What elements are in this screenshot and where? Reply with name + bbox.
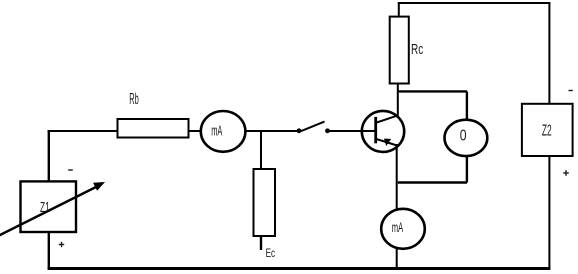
wire: ammeter to bottom rail — [396, 248, 398, 269]
svg-text:Rc: Rc — [411, 42, 423, 58]
switch S1 — [297, 122, 330, 134]
svg-text:Z2: Z2 — [542, 123, 552, 140]
wire: voltmeter loop right lower — [466, 155, 468, 183]
wire: bottom rail — [48, 267, 551, 270]
resistor Rc — [390, 17, 409, 84]
source Z1 (variable) — [21, 181, 77, 232]
wire: top rail — [398, 2, 551, 4]
wire: switch to transistor base — [329, 130, 376, 132]
wire: right side down to Z2 — [548, 3, 550, 104]
wire: Z2 down to bottom rail — [548, 156, 550, 269]
arrow through Z1 (variable symbol) — [0, 182, 105, 237]
label plus (Z1) — [59, 242, 64, 247]
label minus (Z1) — [68, 169, 73, 171]
load Z2 — [522, 104, 573, 156]
wire: voltmeter loop top — [398, 90, 467, 92]
voltmeter O — [445, 120, 488, 156]
wire: voltmeter loop bottom — [398, 181, 467, 183]
wire: collector to Rc — [397, 83, 399, 116]
wire: Z1 bottom to bottom rail — [48, 232, 50, 269]
svg-text:0: 0 — [460, 128, 467, 145]
wire: Rb to milliammeter — [189, 130, 203, 132]
resistor Rb — [118, 119, 189, 138]
transistor Q1 — [362, 111, 404, 152]
svg-text:mA: mA — [392, 219, 404, 235]
wire: emitter down to ammeter — [396, 144, 398, 210]
ammeter mA (base circuit) — [201, 111, 246, 152]
wire: voltmeter loop right upper — [466, 91, 468, 121]
svg-text:mA: mA — [211, 123, 222, 140]
wire: Rc to top rail — [398, 3, 400, 17]
svg-text:Rb: Rb — [129, 91, 139, 108]
wire: ammeter to switch — [245, 130, 297, 132]
wire: drop from node to Ec — [260, 130, 262, 170]
wire: stub below Ec — [260, 236, 262, 250]
label plus (Z2) — [563, 170, 569, 176]
ammeter mA (emitter circuit) — [381, 209, 425, 249]
wire: main horizontal, left loop top to Rb — [48, 130, 118, 132]
battery Ec — [254, 169, 276, 236]
label minus (Z2) — [569, 90, 573, 92]
wire: Z1 top to main wire — [48, 130, 50, 182]
svg-text:Ec: Ec — [266, 248, 276, 260]
